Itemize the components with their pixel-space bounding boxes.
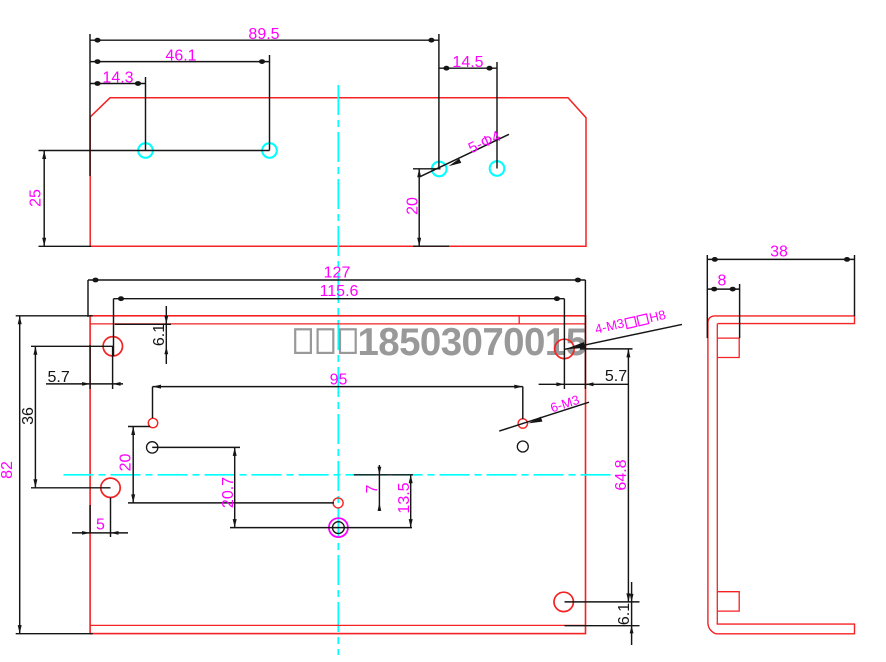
svg-text:20: 20	[118, 454, 135, 472]
svg-text:115.6: 115.6	[320, 283, 359, 300]
svg-text:5: 5	[96, 517, 105, 534]
svg-text:38: 38	[770, 243, 788, 260]
svg-text:5.7: 5.7	[605, 368, 627, 385]
svg-text:95: 95	[330, 371, 348, 388]
svg-text:20.7: 20.7	[220, 477, 237, 508]
svg-text:89.5: 89.5	[248, 26, 279, 43]
svg-text:5.7: 5.7	[48, 369, 70, 386]
svg-text:36: 36	[20, 407, 37, 425]
svg-text:64.8: 64.8	[613, 459, 630, 490]
svg-text:25: 25	[27, 189, 44, 207]
svg-text:13.5: 13.5	[396, 482, 413, 513]
svg-text:14.5: 14.5	[452, 54, 483, 71]
svg-text:127: 127	[324, 265, 351, 282]
svg-text:46.1: 46.1	[165, 47, 196, 64]
svg-text:6.1: 6.1	[616, 603, 633, 625]
svg-text:18503070015: 18503070015	[358, 321, 587, 364]
svg-text:14.3: 14.3	[102, 69, 133, 86]
svg-text:82: 82	[0, 461, 16, 479]
svg-text:20: 20	[404, 197, 421, 215]
svg-text:7: 7	[364, 484, 381, 493]
svg-text:6.1: 6.1	[151, 324, 168, 346]
svg-text:8: 8	[718, 272, 727, 289]
